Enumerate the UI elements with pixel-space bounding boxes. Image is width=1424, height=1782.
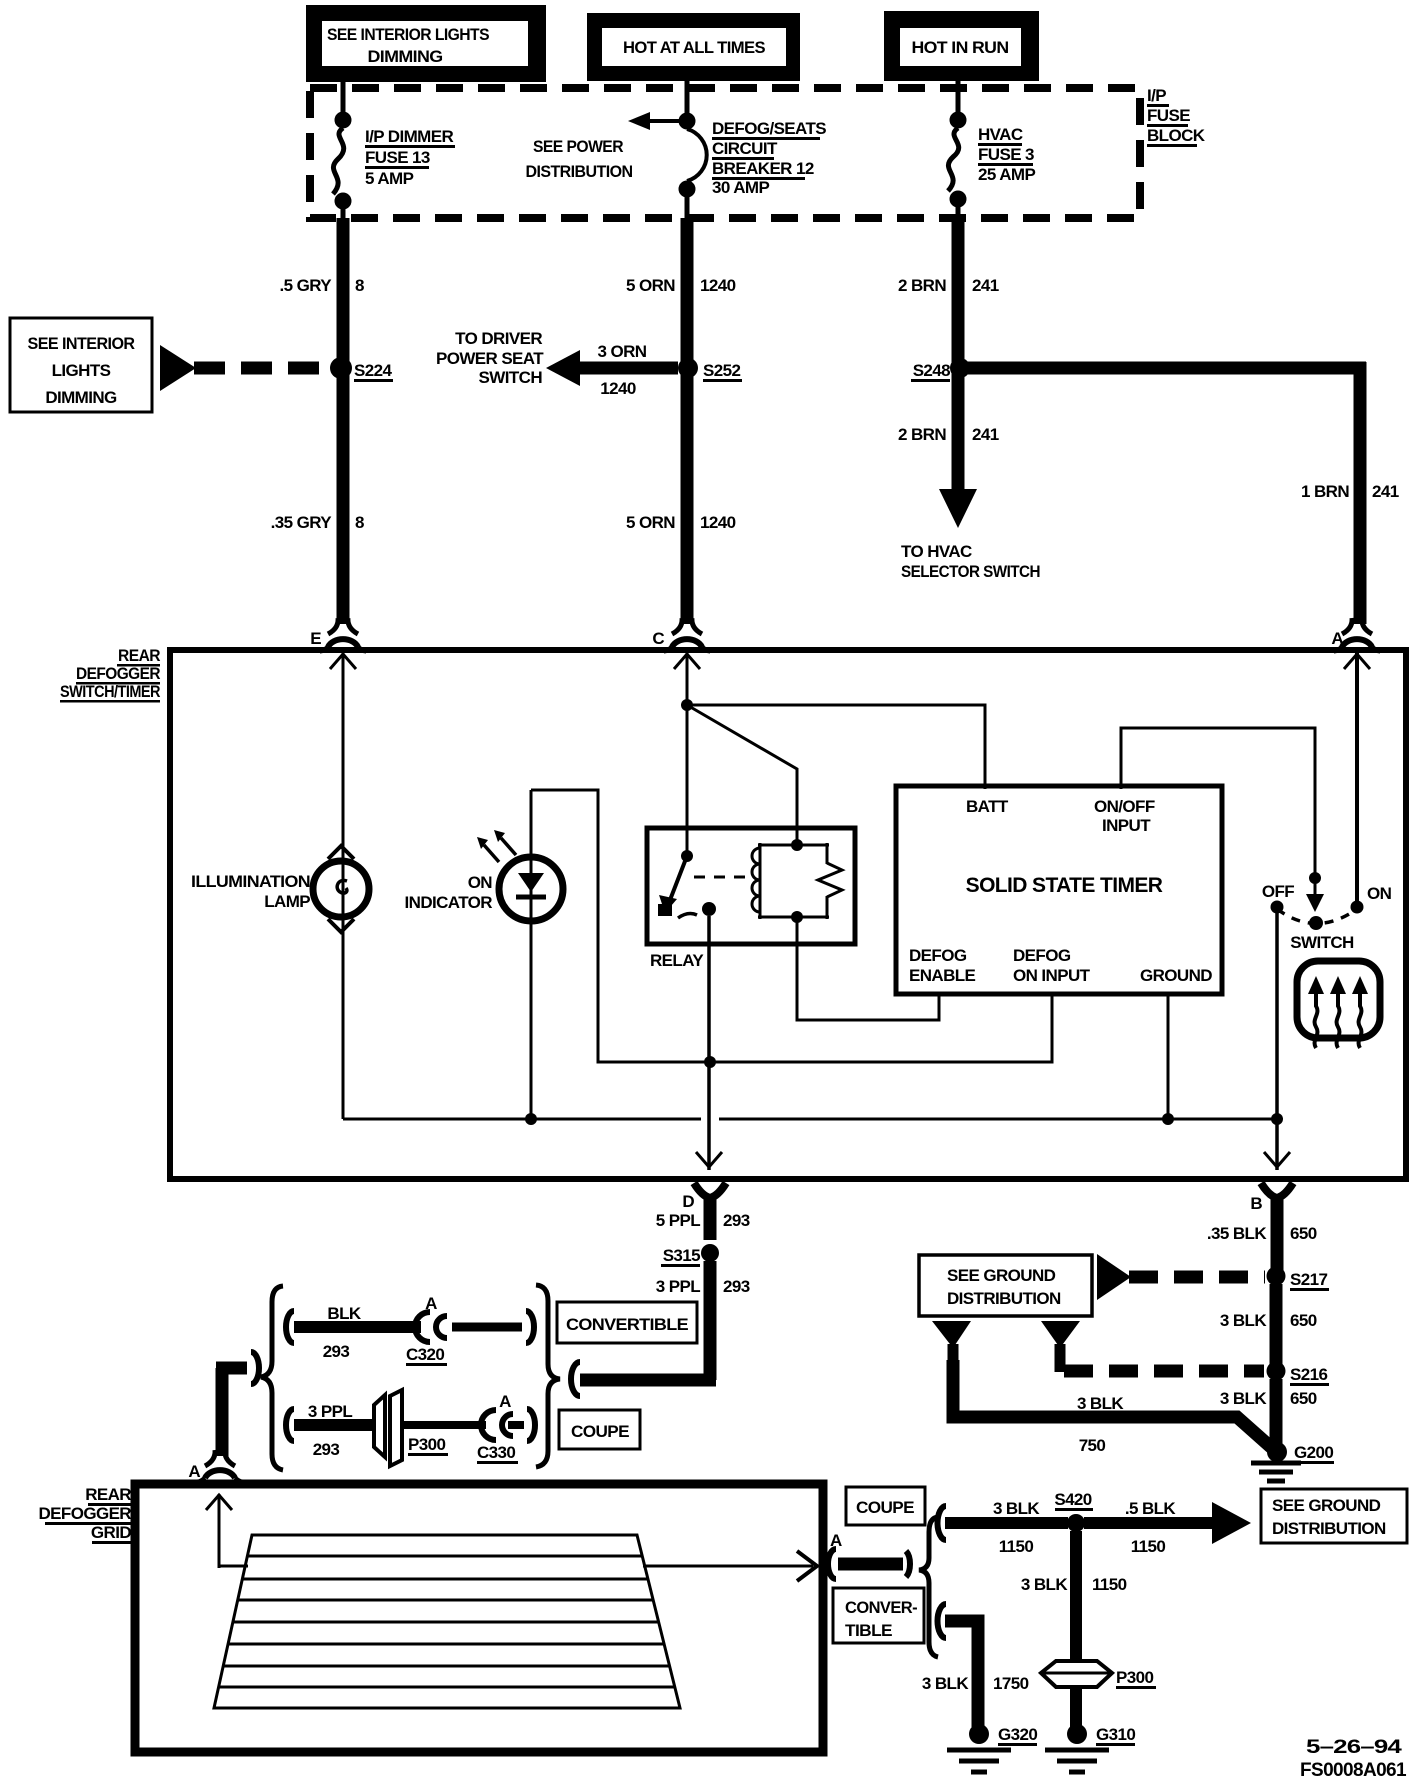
label REAR DEFOGGER SWITCH/TIMER <box>60 646 160 703</box>
svg-text:5 ORN: 5 ORN <box>626 513 675 532</box>
wire: grid to right side connector A (arrow right) <box>643 1551 817 1581</box>
svg-text:SEE GROUND: SEE GROUND <box>947 1266 1056 1285</box>
wire: timer ON/OFF INPUT to switch arm <box>1121 728 1324 912</box>
svg-text:SEE INTERIOR: SEE INTERIOR <box>28 334 135 353</box>
svg-text:BLOCK: BLOCK <box>1147 126 1206 145</box>
dashed wire: S224 to see interior lights dimming, with arrow <box>160 345 330 391</box>
svg-text:ON: ON <box>468 873 493 892</box>
splice S315 <box>701 1244 719 1262</box>
label .5 BLK / 1150 (right of S420) <box>1125 1499 1177 1556</box>
wire: relay coil to timer DEFOG ENABLE <box>797 920 939 1020</box>
splice S420 <box>1067 1514 1085 1532</box>
svg-text:A: A <box>188 1462 200 1481</box>
label 5 PPL 293 <box>656 1211 750 1230</box>
svg-text:TIBLE: TIBLE <box>845 1621 892 1640</box>
svg-text:RELAY: RELAY <box>650 951 704 970</box>
timer pin labels <box>909 797 1212 985</box>
splice S224 <box>330 357 352 379</box>
defogger grid icon <box>1297 961 1380 1048</box>
REAR DEFOGGER GRID box <box>135 1484 823 1752</box>
ground G310 <box>1045 1724 1109 1772</box>
callout box: SEE INTERIOR LIGHTS DIMMING (left) <box>10 318 152 412</box>
label 3 BLK 650 (S216-G200) <box>1220 1389 1317 1408</box>
label S224 <box>354 361 393 382</box>
relay mechanical link (dashed) <box>694 876 748 879</box>
label 3 BLK 1150 (vertical run) <box>1021 1575 1127 1594</box>
circuit breaker CB12 (DEFOG/SEATS CIRCUIT BREAKER 12, 30 AMP) <box>679 80 707 224</box>
terminal D connector (Y) <box>682 1183 726 1240</box>
label .5 GRY 8 <box>279 276 364 295</box>
wire: LED anode up/over to timer DEFOG ON INPUT <box>531 790 1052 1068</box>
label HVAC FUSE 3 25 AMP <box>978 125 1035 184</box>
svg-text:3 BLK: 3 BLK <box>1220 1311 1267 1330</box>
dashed wire: funnel to S216 <box>1064 1365 1264 1378</box>
svg-text:8: 8 <box>355 513 364 532</box>
label .35 GRY 8 <box>271 513 364 532</box>
svg-text:750: 750 <box>1079 1436 1106 1455</box>
callout box: HOT IN RUN <box>884 11 1039 81</box>
wire: S420 to see ground distribution (.5 BLK 1150) <box>1084 1502 1251 1544</box>
connector C330 <box>481 1410 513 1440</box>
terminal B connector (Y) <box>1250 1183 1293 1270</box>
svg-text:DISTRIBUTION: DISTRIBUTION <box>1272 1519 1386 1538</box>
svg-text:REAR: REAR <box>85 1485 131 1504</box>
callout box CONVER-TIBLE <box>833 1588 924 1643</box>
svg-text:CONVER-: CONVER- <box>845 1598 917 1617</box>
svg-text:FUSE 13: FUSE 13 <box>365 148 430 167</box>
svg-text:1150: 1150 <box>1092 1575 1127 1594</box>
svg-text:LIGHTS: LIGHTS <box>52 361 111 380</box>
fuse F3 (HVAC FUSE 3, 25 AMP) <box>948 80 966 224</box>
svg-text:INDICATOR: INDICATOR <box>405 893 493 912</box>
wire: S248 down to HVAC selector switch arrow (2 BRN 241) <box>939 374 977 528</box>
svg-text:241: 241 <box>972 425 999 444</box>
svg-text:ON INPUT: ON INPUT <box>1013 966 1091 985</box>
label S252 <box>703 361 742 382</box>
svg-text:DIMMING: DIMMING <box>368 47 443 66</box>
label 3 ORN / 1240 <box>598 342 647 398</box>
svg-text:3 BLK: 3 BLK <box>993 1499 1040 1518</box>
dashed wire: see ground distribution to S217, with arrow <box>1097 1254 1265 1300</box>
svg-text:293: 293 <box>723 1277 750 1296</box>
svg-text:A: A <box>499 1392 511 1411</box>
svg-text:REAR: REAR <box>118 646 160 665</box>
svg-text:SEE INTERIOR LIGHTS: SEE INTERIOR LIGHTS <box>327 25 489 44</box>
svg-text:1240: 1240 <box>700 276 736 295</box>
label TO HVAC SELECTOR SWITCH <box>901 542 1040 581</box>
svg-text:3 PPL: 3 PPL <box>656 1277 700 1296</box>
svg-text:INPUT: INPUT <box>1102 816 1151 835</box>
svg-text:.5 BLK: .5 BLK <box>1125 1499 1177 1518</box>
svg-text:293: 293 <box>313 1440 340 1459</box>
svg-text:S248: S248 <box>913 361 950 380</box>
label S217 <box>1290 1270 1329 1291</box>
label 3 BLK 1750 <box>922 1674 1029 1693</box>
wire: S217 to S216 <box>1270 1284 1283 1364</box>
svg-text:241: 241 <box>1372 482 1399 501</box>
svg-text:HVAC: HVAC <box>978 125 1023 144</box>
ground bus wire inside box (lamp/LED/timer ground/OFF) <box>343 1113 1283 1125</box>
svg-text:SEE POWER: SEE POWER <box>533 137 623 156</box>
wire: convertible branch to G320 (3 BLK 1750) <box>938 1604 979 1727</box>
wire: timer GROUND down to ground bus <box>1167 994 1170 1119</box>
ground G320 <box>947 1724 1011 1772</box>
callout box CONVERTIBLE <box>557 1302 697 1343</box>
ON indicator LED <box>477 790 563 1119</box>
svg-text:GRID: GRID <box>91 1523 131 1542</box>
svg-text:2 BRN: 2 BRN <box>898 276 946 295</box>
svg-text:5 ORN: 5 ORN <box>626 276 675 295</box>
wire: P300 to G310 <box>1070 1687 1082 1727</box>
label G320 <box>998 1725 1037 1746</box>
svg-text:FUSE 3: FUSE 3 <box>978 145 1034 164</box>
svg-text:G320: G320 <box>998 1725 1037 1744</box>
relay coil with parallel resistor <box>752 839 842 923</box>
svg-text:LAMP: LAMP <box>264 892 310 911</box>
svg-text:3 ORN: 3 ORN <box>598 342 647 361</box>
svg-text:I/P DIMMER: I/P DIMMER <box>365 127 453 146</box>
label BLK 293 <box>323 1304 362 1361</box>
label C320 <box>406 1345 447 1366</box>
label 3 BLK / 750 <box>1077 1394 1124 1455</box>
svg-text:650: 650 <box>1290 1311 1317 1330</box>
svg-text:DISTRIBUTION: DISTRIBUTION <box>947 1289 1061 1308</box>
grommet P300 (lower) <box>1041 1661 1112 1687</box>
svg-text:OFF: OFF <box>1262 882 1294 901</box>
label REAR DEFOGGER GRID <box>39 1485 132 1544</box>
label 1 BRN 241 <box>1301 482 1399 501</box>
svg-text:C330: C330 <box>477 1443 515 1462</box>
wire: terminal E down to lamp and ground bus (thin, inside box) <box>330 653 356 1119</box>
label P300 (lower) <box>1116 1668 1156 1689</box>
right brace (convertible/coupe group) <box>536 1285 560 1467</box>
switch (OFF/ON dashed arc) <box>1271 901 1364 931</box>
svg-text:SWITCH: SWITCH <box>1290 933 1354 952</box>
defogger grid element (trapezoid) <box>214 1535 680 1708</box>
label 5 ORN 1240 (upper) <box>626 276 736 295</box>
svg-text:E: E <box>310 629 321 648</box>
wire: coupe branch to S420 (3 BLK 1150) <box>938 1506 1069 1540</box>
svg-text:30 AMP: 30 AMP <box>712 178 769 197</box>
svg-text:CIRCUIT: CIRCUIT <box>712 139 778 158</box>
fuse F13 (I/P DIMMER FUSE 13, 5 AMP) <box>333 112 351 224</box>
relay armature and contacts <box>658 850 716 918</box>
svg-text:DEFOGGER: DEFOGGER <box>76 664 160 683</box>
svg-text:P300: P300 <box>408 1435 445 1454</box>
svg-text:8: 8 <box>355 276 364 295</box>
svg-text:C: C <box>652 629 664 648</box>
label 3 BLK / 1150 (left of S420) <box>993 1499 1040 1556</box>
svg-text:2 BRN: 2 BRN <box>898 425 946 444</box>
svg-text:COUPE: COUPE <box>571 1422 629 1441</box>
wire: OFF contact down to terminal B <box>1264 913 1290 1170</box>
svg-text:HOT IN RUN: HOT IN RUN <box>912 38 1009 57</box>
svg-text:COUPE: COUPE <box>856 1498 914 1517</box>
svg-text:A: A <box>1331 629 1343 648</box>
svg-text:SWITCH: SWITCH <box>479 368 543 387</box>
svg-text:P300: P300 <box>1116 1668 1153 1687</box>
ground G200 <box>1251 1442 1301 1481</box>
svg-text:S217: S217 <box>1290 1270 1327 1289</box>
connector A (grid to body harness) <box>828 1531 910 1579</box>
svg-text:HOT AT ALL TIMES: HOT AT ALL TIMES <box>623 38 765 57</box>
svg-text:SWITCH/TIMER: SWITCH/TIMER <box>60 682 160 701</box>
svg-text:CONVERTIBLE: CONVERTIBLE <box>566 1315 688 1334</box>
illumination lamp <box>313 846 369 932</box>
wire: ground distribution to G200 (3 BLK 750) <box>953 1360 1273 1449</box>
svg-text:650: 650 <box>1290 1389 1317 1408</box>
REAR DEFOGGER SWITCH/TIMER box <box>170 650 1406 1179</box>
label S420 <box>1054 1490 1093 1511</box>
svg-text:ENABLE: ENABLE <box>909 966 976 985</box>
wire: breaker 12 to terminal C (5 ORN 1240) <box>681 218 694 624</box>
label I/P DIMMER FUSE 13 5 AMP <box>365 127 455 188</box>
arrow: breaker to see power distribution <box>628 112 684 130</box>
svg-text:1240: 1240 <box>600 379 636 398</box>
wire: box1 to fuse 13 <box>341 80 346 113</box>
label TO DRIVER POWER SEAT SWITCH <box>436 329 544 387</box>
svg-text:3 PPL: 3 PPL <box>308 1402 352 1421</box>
svg-text:DEFOG: DEFOG <box>909 946 967 965</box>
svg-text:5 AMP: 5 AMP <box>365 169 414 188</box>
wire: S216 to G200 <box>1270 1379 1283 1448</box>
svg-text:DIMMING: DIMMING <box>45 388 117 407</box>
svg-text:650: 650 <box>1290 1224 1317 1243</box>
svg-text:DISTRIBUTION: DISTRIBUTION <box>526 162 633 181</box>
svg-text:DEFOG: DEFOG <box>1013 946 1071 965</box>
I/P fuse block (dashed box) <box>310 88 1140 218</box>
wire: terminal C down to relay pivot, with junction <box>674 653 700 858</box>
callout box COUPE (bottom) <box>846 1487 925 1525</box>
svg-text:293: 293 <box>723 1211 750 1230</box>
wire: junction to relay coil (diagonal) <box>687 705 797 848</box>
label 3 PPL 293 <box>656 1277 750 1296</box>
svg-text:TO DRIVER: TO DRIVER <box>455 329 542 348</box>
label P300 <box>408 1435 448 1456</box>
svg-text:POWER SEAT: POWER SEAT <box>436 349 544 368</box>
terminal C connector <box>652 618 710 651</box>
label 5 ORN 1240 (lower) <box>626 513 736 532</box>
svg-text:BLK: BLK <box>327 1304 361 1323</box>
svg-text:.35 BLK: .35 BLK <box>1207 1224 1267 1243</box>
svg-text:S216: S216 <box>1290 1365 1327 1384</box>
svg-text:G200: G200 <box>1294 1443 1333 1462</box>
label .35 BLK 650 <box>1207 1224 1317 1243</box>
label ILLUMINATION LAMP <box>191 872 310 911</box>
svg-text:BATT: BATT <box>966 797 1009 816</box>
svg-text:.35 GRY: .35 GRY <box>271 513 333 532</box>
svg-text:S420: S420 <box>1054 1490 1091 1509</box>
ground distribution arrows (funnels) <box>932 1321 1080 1372</box>
svg-text:I/P: I/P <box>1147 86 1166 105</box>
svg-text:SELECTOR SWITCH: SELECTOR SWITCH <box>901 562 1040 581</box>
wire: C320 to right brace <box>452 1311 534 1343</box>
label C330 <box>477 1443 518 1464</box>
svg-text:G310: G310 <box>1096 1725 1135 1744</box>
svg-text:ON/OFF: ON/OFF <box>1094 797 1155 816</box>
svg-text:SEE GROUND: SEE GROUND <box>1272 1496 1381 1515</box>
svg-text:1150: 1150 <box>999 1537 1034 1556</box>
svg-text:25 AMP: 25 AMP <box>978 165 1035 184</box>
label S248 <box>911 361 950 382</box>
svg-text:ON: ON <box>1367 884 1392 903</box>
svg-text:S315: S315 <box>663 1246 700 1265</box>
wire: C330 to right brace <box>508 1409 535 1441</box>
svg-text:3 BLK: 3 BLK <box>922 1674 969 1693</box>
label I/P FUSE BLOCK <box>1147 86 1206 147</box>
callout box: SEE INTERIOR LIGHTS DIMMING (top) <box>306 5 546 82</box>
svg-text:GROUND: GROUND <box>1140 966 1212 985</box>
wire: terminal A down to switch ON contact <box>1344 653 1370 902</box>
callout box COUPE (mid) <box>559 1410 640 1449</box>
svg-text:S224: S224 <box>354 361 392 380</box>
callout box: HOT AT ALL TIMES <box>587 13 800 81</box>
splice S216 <box>1267 1362 1286 1381</box>
svg-text:FS0008A061: FS0008A061 <box>1300 1760 1407 1781</box>
wire: S420 down to G310 (3 BLK 1150) <box>1070 1531 1082 1663</box>
label S216 <box>1290 1365 1329 1386</box>
svg-text:BREAKER 12: BREAKER 12 <box>712 159 814 178</box>
svg-text:1750: 1750 <box>993 1674 1029 1693</box>
svg-text:5–26–94: 5–26–94 <box>1306 1737 1402 1758</box>
wire: relay common contact down to terminal D <box>696 916 722 1170</box>
svg-text:C320: C320 <box>406 1345 444 1364</box>
wire: S252 to driver power seat switch (3 ORN 1240) <box>546 350 678 386</box>
brace (coupe/convertible ground group) <box>919 1517 938 1657</box>
svg-text:TO HVAC: TO HVAC <box>901 542 972 561</box>
svg-text:241: 241 <box>972 276 999 295</box>
svg-text:D: D <box>682 1192 694 1211</box>
wire: P300 to C330 <box>402 1421 486 1429</box>
wire: fuse 13 to terminal E (.5 GRY 8 / .35 GRY 8) <box>337 218 350 624</box>
svg-text:1150: 1150 <box>1131 1537 1166 1556</box>
relay box <box>647 828 855 944</box>
svg-text:S252: S252 <box>703 361 740 380</box>
svg-text:1240: 1240 <box>700 513 736 532</box>
callout box: SEE GROUND DISTRIBUTION (bottom right) <box>1261 1489 1407 1543</box>
solid state timer box <box>896 786 1222 994</box>
svg-text:3 BLK: 3 BLK <box>1077 1394 1124 1413</box>
wire: junction to timer BATT <box>687 705 985 789</box>
svg-text:3 BLK: 3 BLK <box>1021 1575 1068 1594</box>
svg-text:1 BRN: 1 BRN <box>1301 482 1349 501</box>
connector C320 <box>415 1312 447 1342</box>
splice S248 <box>950 358 970 378</box>
wire: grid to terminal A (up arrow) <box>206 1494 248 1568</box>
svg-text:DEFOGGER: DEFOGGER <box>39 1504 132 1523</box>
left brace (convertible/coupe group) <box>261 1286 283 1470</box>
wire: S248 right and down to terminal A (1 BRN 241) <box>966 362 1366 624</box>
svg-text:.5 GRY: .5 GRY <box>279 276 332 295</box>
wire row: 3 PPL 293 via P300 and C330 (coupe) <box>286 1409 376 1441</box>
terminal A connector (top of switch/timer box) <box>1331 618 1380 651</box>
label 3 BLK 650 (S217-S216) <box>1220 1311 1317 1330</box>
svg-text:ILLUMINATION: ILLUMINATION <box>191 872 310 891</box>
label 2 BRN 241 (upper) <box>898 276 999 295</box>
label ON INDICATOR <box>405 873 493 912</box>
svg-text:SOLID STATE TIMER: SOLID STATE TIMER <box>966 874 1163 897</box>
label G310 <box>1096 1725 1135 1746</box>
splice S217 <box>1267 1267 1286 1286</box>
label 2 BRN 241 (lower) <box>898 425 999 444</box>
svg-text:A: A <box>425 1294 437 1313</box>
label S315 <box>661 1246 700 1267</box>
terminal E connector <box>310 618 366 651</box>
date and drawing number <box>1300 1737 1407 1781</box>
svg-text:B: B <box>1250 1194 1262 1213</box>
wire: fuse 3 to S248 (2 BRN 241) <box>952 218 965 374</box>
svg-text:293: 293 <box>323 1342 350 1361</box>
splice S252 <box>678 358 698 378</box>
svg-text:5 PPL: 5 PPL <box>656 1211 700 1230</box>
callout box: SEE GROUND DISTRIBUTION (mid) <box>919 1255 1092 1316</box>
wire: S315 down and left to body harness connector <box>571 1261 716 1396</box>
label DEFOG/SEATS CIRCUIT BREAKER 12 30 AMP <box>712 119 826 197</box>
wire row: BLK 293 via C320 (convertible) <box>286 1311 421 1343</box>
svg-text:DEFOG/SEATS: DEFOG/SEATS <box>712 119 826 138</box>
grommet P300 (upper) <box>374 1390 402 1466</box>
label G200 <box>1294 1443 1334 1464</box>
svg-text:3 BLK: 3 BLK <box>1220 1389 1267 1408</box>
label 3 PPL 293 (row2) <box>308 1402 352 1459</box>
label SEE POWER DISTRIBUTION <box>526 137 633 181</box>
svg-text:FUSE: FUSE <box>1147 106 1190 125</box>
wire: left brace to rear defogger grid terminal A <box>197 1352 259 1482</box>
